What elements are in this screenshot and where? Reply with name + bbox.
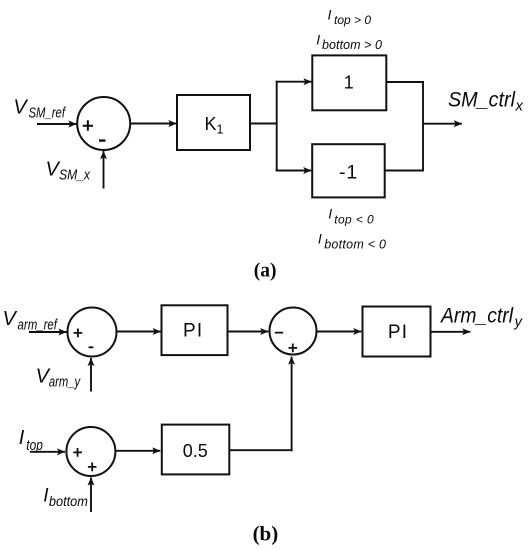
wire: right join vertical	[422, 81, 424, 172]
wire: V_SM_ref input arrow	[37, 123, 77, 125]
block K1	[177, 95, 250, 150]
svg-text:0.5: 0.5	[183, 441, 208, 461]
svg-text:-1: -1	[339, 161, 357, 183]
wire: V_SM_x input arrow	[103, 151, 105, 189]
wire: top branch into block 1	[276, 81, 312, 83]
node label I_bottom	[43, 486, 88, 510]
wire: V_arm_y input arrow	[90, 358, 92, 392]
summing junction S3	[270, 308, 317, 355]
svg-text:I: I	[328, 6, 332, 22]
svg-text:I: I	[316, 32, 320, 48]
svg-text:+: +	[82, 115, 94, 137]
svg-text:SM_ctrl: SM_ctrl	[448, 88, 516, 111]
node label V_SM_x	[46, 159, 91, 184]
svg-text:I: I	[318, 231, 322, 247]
condition label I_bottom>0	[316, 32, 382, 53]
svg-text:(b): (b)	[253, 522, 279, 546]
svg-text:-: -	[88, 337, 94, 356]
wire: feedback vertical into S3	[291, 357, 293, 452]
svg-text:PI: PI	[183, 321, 203, 342]
wire: 0.5 output horizontal	[229, 449, 292, 451]
svg-text:x: x	[515, 97, 524, 114]
svg-text:bottom < 0: bottom < 0	[324, 237, 386, 251]
block PI (second)	[363, 307, 431, 357]
node label SM_ctrl_x	[448, 88, 524, 114]
svg-text:I: I	[328, 206, 332, 222]
summing junction S1	[77, 97, 130, 150]
wire: Arm_ctrl output arrow	[432, 331, 471, 333]
condition label I_top>0	[328, 6, 372, 27]
wire: V_arm_ref input arrow	[29, 331, 67, 333]
wire: K1 output to branch node	[251, 123, 278, 125]
wire: S4 to block 0.5	[116, 450, 160, 452]
svg-text:+: +	[73, 444, 83, 462]
node label V_arm_y	[36, 366, 81, 391]
svg-text:+: +	[73, 325, 83, 343]
wire: S3 to PI2	[318, 331, 362, 333]
svg-text:+: +	[87, 458, 97, 476]
block gain 1	[312, 55, 386, 110]
node label Arm_ctrl_y	[439, 305, 523, 331]
svg-text:SM_ref: SM_ref	[29, 106, 67, 122]
svg-text:Arm_ctrl: Arm_ctrl	[439, 305, 514, 328]
summing junction S4	[66, 427, 115, 476]
svg-text:PI: PI	[388, 322, 408, 343]
svg-text:I: I	[19, 427, 25, 449]
summing junction S2	[68, 308, 117, 357]
node label V_SM_ref	[13, 96, 66, 121]
wire: block -1 output	[385, 170, 424, 172]
wire: branch vertical	[276, 81, 278, 172]
svg-text:-: -	[98, 126, 106, 153]
wire: PI to S3	[229, 331, 269, 333]
svg-text:1: 1	[344, 73, 354, 93]
svg-text:bottom: bottom	[49, 493, 88, 509]
node label I_top	[19, 427, 43, 454]
svg-text:+: +	[288, 339, 298, 357]
svg-text:SM_x: SM_x	[59, 167, 91, 183]
wire: block 1 output	[386, 81, 424, 83]
block 0.5	[162, 425, 230, 475]
block PI (first)	[162, 305, 228, 355]
block gain -1	[312, 144, 385, 197]
wire: I_top input arrow	[30, 451, 65, 453]
wire: I_bottom input arrow	[90, 478, 92, 513]
condition label I_bottom<0	[318, 231, 386, 252]
wire: SM_ctrl output arrow	[423, 123, 462, 125]
condition label I_top<0	[328, 206, 374, 227]
svg-text:arm_y: arm_y	[49, 375, 81, 391]
svg-text:bottom > 0: bottom > 0	[322, 38, 382, 52]
wire: S2 to PI	[117, 331, 161, 333]
svg-text:top > 0: top > 0	[334, 13, 371, 27]
wire: S1 to K1	[131, 123, 177, 125]
node label V_arm_ref	[3, 308, 59, 333]
svg-text:(a): (a)	[254, 261, 277, 282]
svg-text:top < 0: top < 0	[334, 212, 374, 226]
svg-text:V: V	[3, 308, 18, 330]
wire: bottom branch into block -1	[276, 170, 312, 172]
svg-text:−: −	[274, 325, 283, 342]
svg-text:V: V	[13, 96, 28, 118]
